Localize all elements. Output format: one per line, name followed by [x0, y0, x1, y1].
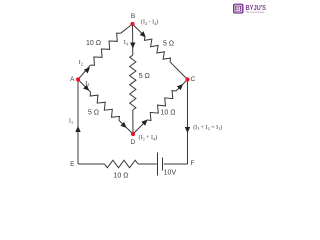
- svg-text:(I2 - I4): (I2 - I4): [141, 19, 158, 26]
- wire A to D upper segment: [78, 80, 91, 93]
- wire D to C lower segment: [133, 120, 147, 134]
- svg-text:B: B: [236, 6, 241, 13]
- svg-text:B: B: [131, 13, 135, 20]
- svg-text:5 Ω: 5 Ω: [139, 73, 150, 80]
- current arrow I2 on A-B: [84, 67, 90, 73]
- resistor R_AD 5 ohm zigzag: [90, 92, 119, 120]
- battery 10V short thick plate: [162, 158, 164, 171]
- resistor R_BC 5 ohm zigzag: [144, 37, 170, 62]
- wire D to C upper segment: [176, 80, 188, 92]
- svg-text:C: C: [191, 76, 196, 83]
- current arrow I1 on E-A pointing up: [75, 126, 80, 132]
- wire A to B upper segment: [121, 24, 133, 33]
- wire B to C upper segment: [133, 24, 146, 37]
- current arrow I4 on B-D: [130, 43, 135, 49]
- wire B to C lower segment: [170, 62, 188, 80]
- wire bottom resistor to battery: [138, 163, 157, 165]
- svg-text:I1: I1: [69, 119, 73, 125]
- svg-text:The Learning App: The Learning App: [246, 10, 265, 14]
- svg-text:D: D: [130, 139, 135, 146]
- wire B to D lower segment: [132, 110, 134, 134]
- current arrow on A-D near D: [120, 122, 126, 128]
- node D junction dot: [131, 132, 135, 136]
- resistor R_EF 10 ohm zigzag: [105, 160, 139, 168]
- resistor R_DC 10 ohm zigzag: [147, 91, 176, 121]
- svg-text:10V: 10V: [164, 169, 177, 176]
- current arrow on D-C near C: [177, 84, 183, 90]
- battery 10V long plate: [157, 153, 159, 176]
- svg-text:(I3 + I2 = I1): (I3 + I2 = I1): [193, 124, 222, 131]
- svg-text:I3: I3: [85, 81, 89, 87]
- resistor R_BD 5 ohm zigzag: [130, 55, 136, 110]
- wire E to A vertical: [77, 80, 79, 165]
- node A junction dot: [76, 77, 80, 81]
- svg-text:10 Ω: 10 Ω: [86, 40, 101, 47]
- svg-text:10 Ω: 10 Ω: [161, 110, 176, 117]
- svg-text:(I3 + I4): (I3 + I4): [139, 134, 158, 141]
- svg-text:5 Ω: 5 Ω: [163, 41, 174, 48]
- wire E to bottom resistor: [78, 163, 105, 165]
- wire battery to F: [164, 163, 188, 165]
- wire C to F vertical: [187, 80, 189, 165]
- current arrow I3 on A-D near A: [83, 85, 89, 91]
- current arrow (I2-I4) on B-C: [140, 31, 146, 37]
- wire A to D lower segment: [119, 120, 133, 134]
- svg-text:E: E: [70, 161, 75, 168]
- svg-text:A: A: [70, 76, 75, 83]
- node C junction dot: [185, 77, 189, 81]
- wire B to D upper segment: [132, 24, 134, 55]
- resistor R_AB 10 ohm zigzag: [90, 33, 120, 65]
- svg-text:5 Ω: 5 Ω: [88, 110, 99, 117]
- wire A to B lower segment: [78, 65, 90, 79]
- svg-text:10 Ω: 10 Ω: [114, 173, 129, 180]
- node B junction dot: [130, 22, 134, 26]
- current arrow (I3+I4) on D-C near D: [141, 120, 147, 126]
- svg-text:F: F: [191, 160, 195, 167]
- svg-text:I4: I4: [124, 40, 129, 46]
- svg-text:I2: I2: [79, 60, 83, 66]
- BYJU'S logo badge: [233, 4, 244, 14]
- current arrow (I3+I2=I1) on C-F pointing down: [185, 127, 190, 133]
